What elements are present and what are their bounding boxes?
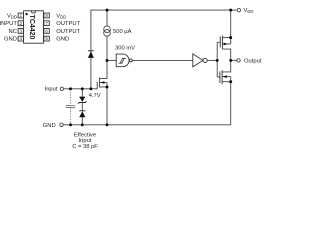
diode D3 bar — [79, 110, 85, 112]
transistor Q2 bulk arm — [222, 76, 231, 78]
zener D2 4.7V triangle (apex down) — [79, 97, 85, 102]
node input/cap — [69, 87, 72, 90]
transistor Q3 bulk arrow — [100, 81, 104, 84]
node gnd/zener — [81, 123, 84, 126]
capacitor C1 effective input (dashed) top lead — [70, 89, 72, 106]
schmitt hysteresis glyph — [119, 58, 126, 63]
transistor Q3 source arm — [100, 86, 107, 88]
pin box 6 — [44, 29, 49, 34]
pin numbers — [20, 13, 49, 41]
transistor Q2 NMOS gate lead — [217, 76, 220, 78]
transistor Q1 bulk arm — [222, 43, 230, 45]
svg-text:4.7V: 4.7V — [89, 93, 101, 99]
wire Q3 source to ground — [106, 87, 108, 125]
svg-text:Output: Output — [244, 59, 262, 65]
svg-text:NC: NC — [9, 29, 17, 35]
wire zener to diode — [81, 103, 83, 111]
wire top rail — [91, 10, 231, 89]
node gate bus — [216, 59, 219, 62]
IC left labels — [0, 14, 17, 43]
wire input — [64, 88, 98, 90]
svg-text:GND: GND — [43, 123, 56, 129]
transistor Q2 channel bar — [221, 70, 223, 84]
pin box 7 — [44, 21, 49, 26]
inverter U3 triangle — [193, 54, 203, 67]
wire output terminal lead — [231, 59, 237, 61]
wire VDD terminal lead — [231, 9, 238, 11]
wire gate bus — [216, 42, 218, 77]
wire output node down to Q2 drain — [222, 60, 230, 72]
schmitt trigger U2 body — [116, 54, 129, 67]
wire inverter to gate bus — [207, 59, 217, 61]
svg-text:OUTPUT: OUTPUT — [56, 29, 80, 35]
diode D1 to VDD (on x=90.9 line) cathode bar — [88, 50, 94, 52]
transistor Q1 bulk arrow — [224, 43, 228, 46]
transistor Q3 channel bar — [99, 77, 101, 87]
transistor Q1 gate bar — [219, 36, 221, 47]
svg-text:300 mV: 300 mV — [115, 46, 135, 52]
IC notch — [31, 11, 36, 13]
transistor Q1 PMOS gate lead — [217, 41, 220, 43]
wire schmitt to inverter — [132, 59, 193, 61]
node Q2 source — [229, 80, 232, 83]
transistor Q1 drain arm — [222, 49, 230, 60]
svg-text:VDD: VDD — [244, 8, 254, 14]
svg-text:GND: GND — [4, 37, 17, 43]
wire current source to node — [106, 36, 108, 60]
transistor Q3 bulk arm — [100, 82, 107, 84]
IC right labels — [56, 14, 80, 43]
node input/zener — [81, 87, 84, 90]
zener branch wire top — [81, 89, 83, 97]
transistor Q2 source arm — [222, 81, 231, 83]
transistor Q2 bulk arrow — [223, 75, 227, 78]
wire node to schmitt input — [107, 59, 116, 61]
pin box 4 — [18, 36, 23, 41]
capacitor C1 plates — [66, 105, 76, 107]
node gnd/Q3 — [106, 123, 109, 126]
transistor Q3 input NMOS gate bar — [96, 82, 98, 89]
transistor Q3 drain arm — [100, 60, 107, 78]
diode D3 triangle (apex up) — [79, 111, 85, 117]
inverter bubble — [203, 58, 207, 62]
wire current source line — [106, 10, 108, 26]
pin box 3 — [18, 29, 23, 34]
pin box 1 — [18, 13, 23, 18]
current source I1 — [104, 26, 111, 33]
node Q3 source — [106, 86, 109, 89]
pin box 5 — [44, 36, 49, 41]
node output — [229, 59, 232, 62]
svg-text:VDD: VDD — [56, 14, 66, 20]
transistor Q1 source arm — [222, 37, 230, 39]
IC U1 TC4420 body — [24, 11, 44, 43]
svg-text:C = 38 pF: C = 38 pF — [72, 144, 98, 150]
transistor Q1 channel bar — [221, 35, 223, 49]
svg-text:VDD: VDD — [7, 14, 17, 20]
wire VDD drop to Q1 — [230, 10, 232, 37]
node Q1 source — [229, 36, 232, 39]
wire diode to ground rail — [81, 117, 83, 125]
pin box 8 — [44, 13, 49, 18]
node top rail / current source — [106, 9, 109, 12]
svg-text:Input: Input — [45, 86, 58, 92]
wire Q2 source to ground rail — [63, 82, 231, 125]
terminal VDD circle — [237, 8, 240, 11]
terminal Output circle — [237, 59, 240, 62]
capacitor C1 bottom lead — [70, 108, 72, 125]
pin box 2 — [18, 21, 23, 26]
diode D1 triangle — [88, 51, 94, 58]
schmitt output bubble — [129, 59, 132, 62]
svg-text:500 µA: 500 µA — [113, 29, 132, 35]
node schmitt input — [106, 59, 109, 62]
zener D2 bar with wings — [78, 101, 86, 103]
terminal Input circle — [60, 87, 63, 90]
svg-text:TC4420: TC4420 — [28, 15, 35, 40]
IC pin1 dot — [26, 13, 28, 15]
svg-text:INPUT: INPUT — [0, 21, 17, 27]
node input/diode — [89, 87, 92, 90]
transistor Q2 gate bar — [219, 71, 221, 83]
node top rail / VDD drop — [229, 9, 232, 12]
label Effective Input C=38pF — [72, 133, 98, 150]
svg-text:GND: GND — [56, 37, 69, 43]
svg-text:OUTPUT: OUTPUT — [56, 21, 80, 27]
node gnd/cap — [69, 123, 72, 126]
terminal GND circle — [60, 123, 63, 126]
